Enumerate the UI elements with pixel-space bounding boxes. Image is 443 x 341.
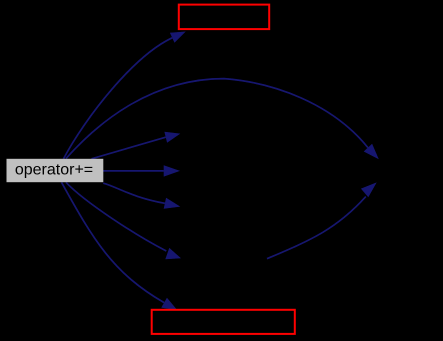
wire operator+= to hidden node 1 (upper right arrow) [92, 132, 181, 159]
wire operator+= to hidden node 2 (horizontal arrow) [103, 165, 180, 176]
node operator+= (focal node, grey) [7, 159, 104, 182]
wire operator+= to top truncated box [64, 32, 186, 159]
node: top truncated box (red outline) [179, 5, 269, 30]
wire operator+= to right hidden node (long top curve) [66, 79, 379, 160]
wire operator+= to bottom truncated box [62, 182, 178, 310]
wire hidden node 4 to right hidden node (long bottom curve) [267, 182, 377, 258]
svg-text:operator+=: operator+= [15, 162, 93, 179]
node: bottom truncated box (red outline) [152, 310, 295, 334]
wire operator+= to hidden node 3 (down-right arrow) [103, 183, 180, 209]
wire operator+= to hidden node 4 (lower arrow) [66, 182, 181, 259]
